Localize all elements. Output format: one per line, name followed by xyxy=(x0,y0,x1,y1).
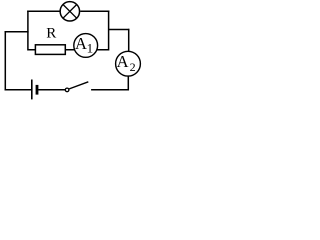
switch xyxy=(65,82,88,92)
ammeter A1 xyxy=(74,34,98,58)
wire below A2 xyxy=(127,76,129,90)
wire junction horizontal (left) xyxy=(5,31,29,33)
wire battery to switch xyxy=(38,89,65,91)
battery xyxy=(32,80,37,100)
wire left vertical (node junction to R branch) xyxy=(27,11,29,51)
svg-text:A: A xyxy=(75,34,87,53)
wire right vertical (lamp/R join) xyxy=(108,11,110,51)
svg-text:2: 2 xyxy=(130,60,136,74)
wire resistor branch xyxy=(28,49,109,51)
svg-text:R: R xyxy=(46,25,56,41)
resistor R xyxy=(35,45,65,55)
lamp xyxy=(60,2,79,21)
wire A2 branch vertical down xyxy=(128,29,130,52)
ammeter A2 xyxy=(116,51,141,76)
wire top-right horizontal xyxy=(80,10,109,12)
wire top-left horizontal xyxy=(27,10,59,12)
wire bottom-right horizontal xyxy=(91,89,129,91)
svg-text:A: A xyxy=(117,52,129,71)
wire A2 branch horizontal xyxy=(109,29,130,31)
svg-text:1: 1 xyxy=(87,40,94,55)
wire left outer vertical xyxy=(4,31,6,91)
wire bottom-left horizontal xyxy=(5,89,31,91)
